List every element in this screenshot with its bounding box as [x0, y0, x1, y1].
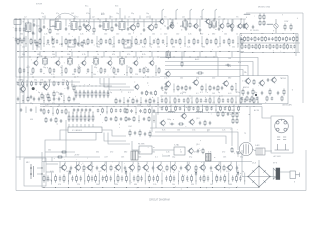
- svg-text:33p: 33p: [34, 80, 37, 82]
- wire: [149, 36, 151, 47]
- capacitor C36: [175, 39, 177, 44]
- junction: [27, 71, 30, 74]
- resistor R145: [178, 123, 184, 125]
- svg-text:22p: 22p: [162, 171, 165, 173]
- svg-text:4.7k: 4.7k: [82, 54, 86, 56]
- capacitor C157: [102, 176, 104, 182]
- junction: [122, 19, 123, 20]
- svg-text:33k: 33k: [67, 54, 70, 56]
- svg-text:X1 10.695: X1 10.695: [250, 30, 259, 32]
- resistor R190: [224, 174, 226, 182]
- svg-text:+: +: [13, 37, 15, 39]
- junction: [282, 32, 285, 35]
- junction: [169, 105, 172, 108]
- svg-text:10p: 10p: [116, 13, 119, 15]
- IF transformer T7b: [166, 50, 171, 59]
- wire: [25, 107, 27, 114]
- resistor R126: [133, 116, 135, 122]
- wire: [287, 76, 289, 105]
- wire: [113, 36, 115, 47]
- capacitor C109: [30, 108, 32, 112]
- junction: [232, 105, 235, 108]
- capacitor C81: [141, 91, 143, 95]
- wire left border: [16, 19, 52, 191]
- junction: [26, 83, 29, 86]
- junction: [25, 50, 28, 53]
- svg-text:IC-1 AN103: IC-1 AN103: [72, 129, 82, 132]
- wire: [92, 124, 94, 127]
- svg-text:T3: T3: [110, 17, 113, 19]
- capacitor C56: [290, 45, 292, 49]
- svg-text:100: 100: [176, 34, 179, 36]
- wire stub: [93, 19, 95, 27]
- svg-text:0.01: 0.01: [36, 26, 40, 28]
- wire stub: [87, 52, 89, 58]
- wire: [67, 173, 69, 185]
- transistor Q6: [169, 23, 174, 29]
- resistor R130: [76, 114, 78, 122]
- resistor R25: [135, 38, 137, 45]
- resistor R121: [115, 116, 117, 122]
- svg-text:100p: 100p: [77, 67, 81, 69]
- capacitor C161: [140, 176, 142, 182]
- resistor R45: [265, 36, 267, 41]
- junction: [16, 19, 17, 20]
- svg-text:8.2k: 8.2k: [142, 47, 145, 49]
- wire stub up: [109, 16, 111, 20]
- junction: [153, 119, 156, 122]
- junction: [21, 56, 24, 59]
- junction: [209, 95, 212, 98]
- junction: [141, 56, 144, 59]
- junction: [71, 105, 74, 108]
- junction: [183, 109, 186, 112]
- wire bus r2: [240, 52, 300, 54]
- wire stub: [199, 19, 201, 27]
- svg-text:MODEL 5900: MODEL 5900: [258, 7, 271, 9]
- junction: [57, 105, 60, 108]
- wire: [132, 149, 139, 151]
- svg-text:47p: 47p: [56, 13, 59, 15]
- svg-text:10p: 10p: [164, 92, 167, 94]
- wire: [104, 133, 126, 142]
- svg-text:680: 680: [202, 47, 205, 49]
- capacitor C61: [74, 68, 76, 73]
- svg-text:1.5k: 1.5k: [67, 47, 70, 49]
- junction: [131, 42, 134, 45]
- wire column: [186, 162, 188, 173]
- transistor Q8: [219, 23, 224, 29]
- resistor R77: [201, 85, 203, 91]
- junction: [241, 51, 244, 54]
- svg-text:470: 470: [58, 184, 61, 186]
- wire: [98, 173, 100, 185]
- resistor R22: [100, 38, 102, 45]
- resistor R75: [177, 85, 179, 91]
- capacitor C59: [40, 68, 42, 73]
- capacitor C27: [69, 39, 71, 44]
- wire: [108, 133, 130, 145]
- svg-text:22p: 22p: [128, 67, 131, 69]
- capacitor C16: [143, 28, 145, 32]
- resistor R189: [216, 174, 218, 182]
- resistor R136: [175, 106, 177, 112]
- capacitor C41: [232, 39, 234, 44]
- capacitor C131: [170, 123, 174, 125]
- junction: [211, 186, 214, 189]
- junction: [84, 111, 87, 114]
- transistor Q32: [60, 164, 66, 171]
- capacitor C75: [213, 86, 215, 90]
- transistor Q20: [222, 80, 228, 87]
- resistor R97: [27, 96, 29, 103]
- junction: [109, 56, 112, 59]
- capacitor C122: [153, 109, 155, 113]
- capacitor C92: [145, 99, 147, 104]
- resistor R28: [171, 38, 173, 45]
- svg-text:103: 103: [138, 157, 141, 159]
- junction: [43, 50, 46, 53]
- capacitor C113: [50, 118, 52, 122]
- junction: [64, 105, 67, 108]
- svg-text:TA7205: TA7205: [280, 77, 286, 80]
- junction: [43, 42, 46, 45]
- svg-text:5p: 5p: [74, 92, 76, 94]
- wire: [16, 156, 100, 158]
- svg-text:10k: 10k: [96, 184, 99, 186]
- junction: [235, 186, 238, 189]
- junction: [69, 56, 72, 59]
- resistor R138: [197, 106, 199, 112]
- transistor Q19: [192, 79, 198, 86]
- resistor R156: [253, 79, 255, 85]
- wire: [61, 65, 63, 76]
- wire bottom border: [52, 150, 306, 191]
- capacitor C135: [134, 131, 136, 135]
- junction: [157, 50, 160, 53]
- microphone MIC1: [30, 164, 33, 179]
- junction: [52, 50, 55, 53]
- wire column: [220, 162, 222, 173]
- transistor Q36: [114, 164, 120, 171]
- wire stub: [55, 52, 57, 58]
- svg-text:10k: 10k: [128, 34, 131, 36]
- junction: [130, 76, 133, 79]
- capacitor C144: [271, 97, 273, 101]
- capacitor C108: [20, 108, 22, 112]
- wire: [205, 84, 207, 93]
- IF transformer T7: [43, 57, 48, 66]
- capacitor C73: [181, 86, 183, 90]
- resistor R108: [218, 97, 220, 104]
- capacitor C154: [71, 176, 73, 182]
- wire: [37, 167, 42, 169]
- wire mid bus left: [16, 103, 80, 105]
- junction: [202, 19, 203, 20]
- junction: [170, 109, 173, 112]
- resistor R13: [243, 23, 245, 29]
- wire: [131, 141, 133, 150]
- wire run 5: [150, 128, 232, 146]
- svg-text:680: 680: [229, 184, 232, 186]
- junction: [213, 101, 216, 104]
- capacitor C153: [59, 176, 61, 182]
- resistor R23: [109, 38, 111, 45]
- junction: [257, 101, 260, 104]
- svg-text:2.2k: 2.2k: [80, 34, 84, 36]
- resistor R63: [78, 67, 80, 74]
- svg-text:.047: .047: [104, 157, 108, 159]
- svg-text:47p: 47p: [189, 157, 192, 159]
- junction: [43, 99, 46, 102]
- svg-text:Q3: Q3: [146, 17, 150, 19]
- wire stub up: [139, 16, 141, 20]
- wire bus c2: [160, 95, 240, 97]
- resistor R147: [231, 147, 233, 153]
- svg-text:0.1: 0.1: [200, 92, 203, 94]
- resistor R15: [17, 38, 19, 45]
- wire stub: [119, 52, 121, 58]
- resistor R19: [65, 38, 67, 45]
- junction: [113, 76, 116, 79]
- capacitor C1: [15, 27, 17, 32]
- capacitor C69: [39, 82, 41, 86]
- svg-text:2.2k: 2.2k: [188, 34, 192, 36]
- wire: [173, 84, 175, 93]
- junction: [247, 176, 248, 177]
- transistor Q7: [193, 23, 198, 29]
- junction: [83, 179, 86, 182]
- speaker SP1: [273, 168, 280, 180]
- resistor R177: [87, 174, 89, 182]
- wire: [27, 65, 29, 76]
- resistor R37: [263, 14, 265, 20]
- resistor R91: [87, 90, 89, 98]
- junction: [258, 186, 259, 187]
- svg-text:680: 680: [228, 78, 231, 80]
- junction: [76, 111, 79, 114]
- svg-text:0.01: 0.01: [228, 93, 232, 95]
- svg-text:10p: 10p: [146, 171, 149, 173]
- resistor R143: [217, 111, 219, 117]
- wire: [166, 36, 168, 47]
- resistor R125: [149, 108, 151, 114]
- svg-text:33k: 33k: [20, 34, 23, 36]
- capacitor C4: [19, 37, 21, 42]
- capacitor C136: [144, 132, 146, 136]
- wire: [35, 107, 37, 114]
- wire: [297, 34, 299, 53]
- wire stub: [65, 19, 67, 26]
- wire: [191, 97, 193, 105]
- svg-text:470p: 470p: [46, 44, 50, 46]
- capacitor C127: [192, 107, 194, 111]
- junction: [215, 109, 218, 112]
- wire: [104, 162, 106, 165]
- resistor R184: [157, 174, 159, 182]
- junction: [166, 42, 169, 45]
- junction: [193, 50, 196, 53]
- junction: [197, 105, 200, 108]
- wire right drop 2: [295, 34, 297, 57]
- capacitor C146: [96, 166, 98, 170]
- svg-text:10p: 10p: [82, 171, 85, 173]
- svg-text:D-BR: D-BR: [255, 145, 260, 147]
- junction: [45, 56, 48, 59]
- junction: [235, 101, 238, 104]
- wire: [152, 57, 154, 60]
- capacitor C54: [272, 45, 274, 49]
- svg-text:2.2k: 2.2k: [222, 130, 225, 132]
- capacitor C32: [127, 39, 129, 44]
- resistor R40: [290, 24, 292, 31]
- junction: [74, 76, 77, 79]
- resistor R90: [83, 90, 85, 98]
- wire: [215, 105, 217, 113]
- wire: [196, 19, 198, 23]
- wire: [60, 130, 68, 140]
- junction: [126, 71, 129, 74]
- wire: [211, 173, 213, 185]
- junction: [173, 56, 176, 59]
- junction: [37, 56, 40, 59]
- resistor R159: [269, 89, 271, 96]
- svg-text:10k: 10k: [224, 34, 227, 36]
- svg-text:0.01: 0.01: [50, 171, 54, 173]
- capacitor C123: [128, 117, 130, 121]
- capacitor C101: [244, 98, 246, 103]
- resistor R139: [206, 106, 208, 112]
- plug P2: [275, 144, 290, 150]
- junction dark blob: [32, 87, 35, 90]
- wire: [51, 173, 53, 185]
- capacitor C9: [33, 23, 35, 27]
- junction: [205, 56, 208, 59]
- wire stub: [215, 52, 217, 58]
- wire: [46, 171, 54, 173]
- wire: [46, 179, 52, 181]
- junction: [87, 85, 90, 88]
- capacitor C155: [80, 176, 82, 182]
- junction: [99, 105, 102, 108]
- capacitor C50: [244, 45, 246, 49]
- wire staircase 3: [109, 78, 134, 90]
- capacitor C159: [121, 176, 123, 182]
- capacitor C31: [118, 39, 120, 44]
- capacitor C165: [186, 176, 188, 182]
- wire bus r1b: [240, 42, 300, 44]
- transistor Q23: [42, 84, 48, 91]
- resistor R99: [68, 96, 70, 103]
- wire left extra: [40, 19, 42, 50]
- resistor R18: [52, 38, 54, 45]
- svg-text:.047: .047: [26, 67, 30, 69]
- svg-text:1k: 1k: [68, 34, 70, 36]
- wire: [133, 19, 135, 24]
- svg-text:+: +: [13, 27, 15, 29]
- resistor R148: [129, 130, 131, 137]
- wire: [71, 80, 73, 87]
- volume control VR1: [131, 151, 138, 160]
- svg-text:0.1: 0.1: [128, 92, 131, 94]
- svg-text:.047: .047: [66, 171, 70, 173]
- junction: [235, 88, 238, 91]
- junction: [133, 56, 136, 59]
- svg-text:5p: 5p: [157, 105, 159, 107]
- resistor R20: [74, 38, 76, 45]
- junction: [96, 42, 99, 45]
- svg-text:103: 103: [100, 26, 103, 28]
- junction: [92, 105, 95, 108]
- wire: [235, 97, 237, 105]
- transistor Q34: [86, 164, 92, 171]
- transistor Q40: [170, 164, 176, 171]
- wire bus 10: [240, 75, 288, 77]
- junction: [239, 105, 242, 108]
- junction: [186, 186, 189, 189]
- resistor R131: [80, 114, 82, 122]
- wire: [259, 13, 261, 15]
- capacitor C79: [30, 95, 32, 99]
- transistor Q14: [81, 60, 86, 66]
- capacitor C15: [127, 27, 129, 31]
- junction: [184, 50, 187, 53]
- wire stub: [83, 19, 85, 22]
- wire stub: [43, 19, 45, 24]
- capacitor C10: [43, 25, 45, 29]
- junction: [190, 105, 193, 108]
- resistor R155: [236, 118, 238, 124]
- junction: [165, 56, 168, 59]
- wire column: [137, 162, 139, 173]
- junction: [161, 179, 164, 182]
- resistor R30: [193, 38, 195, 45]
- wire mid bus: [40, 106, 262, 108]
- resistor R54: [259, 44, 261, 49]
- capacitor C70: [57, 82, 59, 86]
- capacitor C52: [262, 45, 264, 49]
- transistor Q18: [164, 81, 170, 88]
- junction: [79, 186, 82, 189]
- resistor R6: [111, 26, 113, 32]
- junction: [107, 85, 110, 88]
- junction: [88, 111, 91, 114]
- wire: [37, 173, 42, 175]
- junction: [78, 105, 81, 108]
- svg-text:680: 680: [37, 54, 40, 56]
- capacitor C13: [99, 24, 101, 28]
- resistor R38: [263, 20, 265, 26]
- wire: [235, 84, 237, 93]
- resistor R133: [88, 114, 90, 122]
- wire: [43, 95, 45, 103]
- wire: [162, 149, 174, 151]
- capacitor C49: [289, 37, 291, 41]
- svg-text:0.01: 0.01: [85, 44, 88, 46]
- svg-text:Q10: Q10: [18, 80, 22, 82]
- svg-text:1.5k: 1.5k: [164, 78, 168, 80]
- svg-text:680: 680: [212, 34, 215, 36]
- band switch S1: [52, 36, 55, 41]
- svg-text:10p: 10p: [43, 67, 46, 69]
- wire run 3: [165, 66, 248, 77]
- junction: [292, 32, 295, 35]
- capacitor C119: [120, 117, 122, 121]
- svg-text:33p: 33p: [240, 157, 243, 159]
- transistor Q3: [147, 24, 153, 31]
- capacitor C149: [180, 166, 182, 170]
- wire: [113, 173, 115, 185]
